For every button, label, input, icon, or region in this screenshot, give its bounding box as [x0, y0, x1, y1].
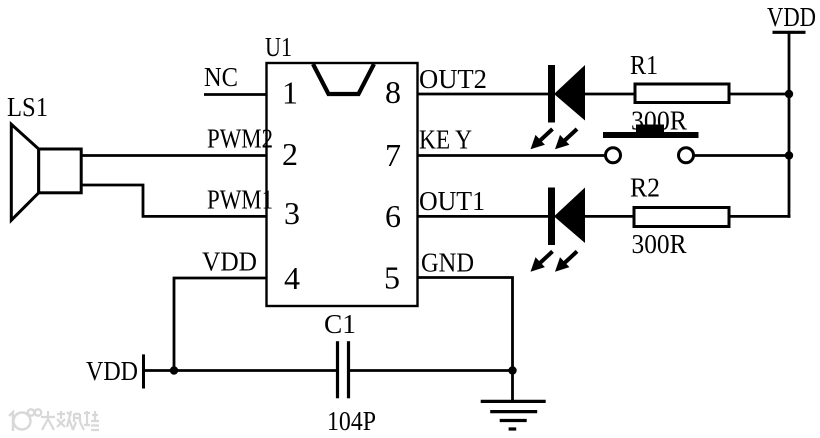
wire pin5 to ground [418, 278, 513, 402]
capacitor C1 [338, 341, 349, 398]
wire LED2 to R2 [585, 215, 634, 218]
wire pin1 NC stub [204, 93, 267, 96]
svg-text:2: 2 [282, 136, 298, 172]
LED D2 [531, 188, 586, 272]
svg-text:6: 6 [385, 198, 401, 234]
svg-text:KE Y: KE Y [419, 125, 472, 155]
svg-text:7: 7 [385, 137, 401, 173]
svg-text:VDD: VDD [202, 247, 257, 277]
wire pin8 to LED1 [418, 93, 551, 96]
svg-text:GND: GND [421, 247, 474, 277]
wire R1 to VDD rail [729, 93, 789, 96]
svg-text:U1: U1 [265, 32, 292, 62]
watermark logo [9, 409, 41, 431]
power VDD top right [767, 2, 816, 32]
svg-text:3: 3 [284, 195, 300, 231]
wire VDD bottom rail left [144, 369, 338, 372]
wire pin7 to button [418, 154, 605, 157]
wire R2 to VDD rail corner [729, 215, 790, 218]
op-amp U1 [267, 63, 418, 306]
wire speaker to pin3 [81, 185, 267, 216]
speaker LS1 [11, 124, 81, 220]
svg-text:VDD: VDD [767, 2, 816, 32]
svg-text:300R: 300R [632, 229, 687, 259]
watermark text [41, 411, 99, 430]
wire LED1 to R1 [585, 93, 635, 96]
power VDD bottom left terminal [86, 354, 144, 388]
node junction dot R1/VDD [785, 90, 793, 98]
LED D1 [531, 65, 586, 149]
U1 notch [313, 64, 374, 94]
node junction dot KEY/VDD [785, 151, 793, 159]
resistor R2 [634, 208, 729, 227]
resistor R1 [635, 84, 729, 103]
wire button to VDD rail [695, 154, 790, 157]
svg-text:5: 5 [384, 260, 400, 296]
push button S1 [603, 125, 699, 163]
node junction dot pin4 branch [170, 366, 178, 374]
svg-text:NC: NC [204, 62, 238, 92]
wire VDD rail vertical [788, 32, 791, 218]
svg-text:8: 8 [385, 74, 401, 110]
wire VDD bottom rail right [349, 369, 513, 372]
svg-text:1: 1 [282, 75, 298, 111]
svg-text:VDD: VDD [86, 356, 138, 386]
node junction dot GND rail [508, 366, 516, 374]
wire speaker to pin2 [81, 154, 267, 157]
svg-text:OUT1: OUT1 [419, 186, 485, 216]
wire pin6 to LED2 [418, 215, 551, 218]
svg-text:OUT2: OUT2 [419, 64, 487, 94]
svg-text:R1: R1 [630, 50, 658, 80]
svg-text:PWM2: PWM2 [207, 124, 273, 154]
svg-text:PWM1: PWM1 [207, 185, 273, 215]
svg-text:104P: 104P [327, 406, 376, 436]
svg-text:C1: C1 [324, 309, 356, 339]
ground [481, 401, 546, 429]
svg-text:4: 4 [284, 260, 300, 296]
svg-text:LS1: LS1 [7, 92, 48, 122]
wire pin4 to VDD rail [174, 278, 267, 371]
svg-text:R2: R2 [630, 173, 660, 203]
